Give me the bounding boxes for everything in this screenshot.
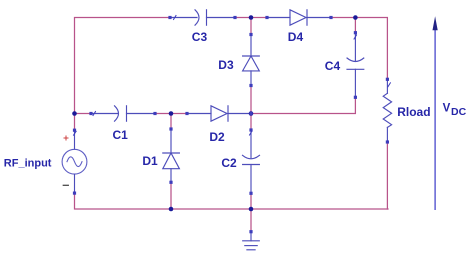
wire: middle net D2 pin2 right to C4 bottom (251, 97, 355, 113)
pin C4.1 (354, 31, 357, 34)
resistor Rload (383, 79, 391, 142)
wire: D1 top stub (170, 114, 172, 130)
slash C3.1 (174, 16, 177, 20)
AC source RF_input (62, 130, 87, 193)
svg-text:D4: D4 (288, 30, 304, 44)
svg-text:D1: D1 (142, 154, 158, 168)
wire: C2 top stub (250, 114, 252, 131)
pin D2.2 (249, 112, 252, 115)
pin D2.1 (185, 112, 188, 115)
junction: top wire / C4 (353, 15, 358, 20)
wire: D3 bottom stub (250, 86, 252, 114)
minus mark of source (63, 184, 68, 186)
svg-text:V: V (443, 102, 451, 114)
pin squares (73, 16, 389, 233)
slash C1.1 (93, 112, 96, 116)
wire: ground stub (250, 209, 252, 232)
slash source pin + (74, 131, 77, 135)
wire: source pin - to bottom-left corner (75, 193, 389, 209)
pin C4.2 (354, 96, 357, 99)
pin D3.2 (249, 33, 252, 36)
junction: left wire / middle net (72, 111, 77, 116)
pin C1.1 (89, 112, 92, 115)
svg-text:C4: C4 (325, 59, 341, 73)
pin source - (73, 192, 76, 195)
junction: middle net / D1 (169, 111, 174, 116)
pin Rload.1 (386, 78, 389, 81)
wire: top net C3 pin2 to D4 pin1 (235, 17, 267, 19)
svg-text:C3: C3 (192, 30, 208, 44)
diode D1 (163, 129, 180, 182)
junction: top wire / D3 (249, 15, 254, 20)
capacitor C2 (243, 130, 260, 193)
pin C3.1 (168, 16, 171, 19)
junction: middle net / D2 / D3 / C2 (249, 111, 254, 116)
svg-text:Rload: Rload (397, 105, 430, 119)
wire: left vertical junction to source pin + (74, 114, 76, 131)
pin D1.1 (169, 181, 172, 184)
wire: C4 top stub from top-wire junction (354, 18, 356, 33)
pin Rload.2 (386, 140, 389, 143)
wire: Rload pin2 to bottom-right corner (386, 142, 388, 209)
ground (243, 232, 260, 250)
pin-1 slash marks (74, 16, 391, 136)
pin D3.1 (249, 84, 252, 87)
pin C2.1 (249, 128, 252, 131)
junction: bottom wire / C2 / ground (249, 207, 254, 212)
pin D4.2 (329, 16, 332, 19)
wire: middle net C1 pin2 to D2 pin1 (155, 113, 187, 115)
wire: top net D4 pin2 to top-right corner, down to Rload pin1 (331, 18, 387, 80)
capacitor C4 (347, 33, 364, 98)
pin ground (249, 230, 252, 233)
diode D3 (243, 35, 260, 86)
svg-text:D3: D3 (218, 58, 234, 72)
pin C3.2 (233, 16, 236, 19)
svg-text:C2: C2 (221, 156, 237, 170)
pin source + (73, 129, 76, 132)
slash C4.1 (354, 35, 357, 39)
wire: C2 bottom stub (250, 193, 252, 209)
pin D1.2 (169, 127, 172, 130)
pin D4.1 (265, 16, 268, 19)
wire: middle net left (junction to C1 pin1) (75, 113, 92, 115)
svg-text:DC: DC (451, 106, 467, 118)
capacitor C1 (91, 106, 155, 121)
wire: top net left segment (corner to C3 pin1) (75, 18, 171, 114)
wire: D1 bottom stub (170, 182, 172, 209)
slash Rload.1 (388, 83, 391, 87)
plus mark of source (64, 136, 68, 140)
slash C2.1 (250, 131, 253, 135)
junction: bottom wire / D1 (169, 207, 174, 212)
pin C1.2 (153, 112, 156, 115)
capacitor C3 (170, 10, 235, 25)
VDC arrow (433, 16, 438, 209)
pin C2.2 (249, 192, 252, 195)
svg-text:C1: C1 (113, 128, 129, 142)
diode D4 (267, 10, 331, 25)
wire: D3 top stub from top-wire junction (250, 18, 252, 35)
diode D2 (187, 106, 251, 121)
svg-text:RF_input: RF_input (4, 158, 52, 170)
svg-text:D2: D2 (209, 130, 225, 144)
